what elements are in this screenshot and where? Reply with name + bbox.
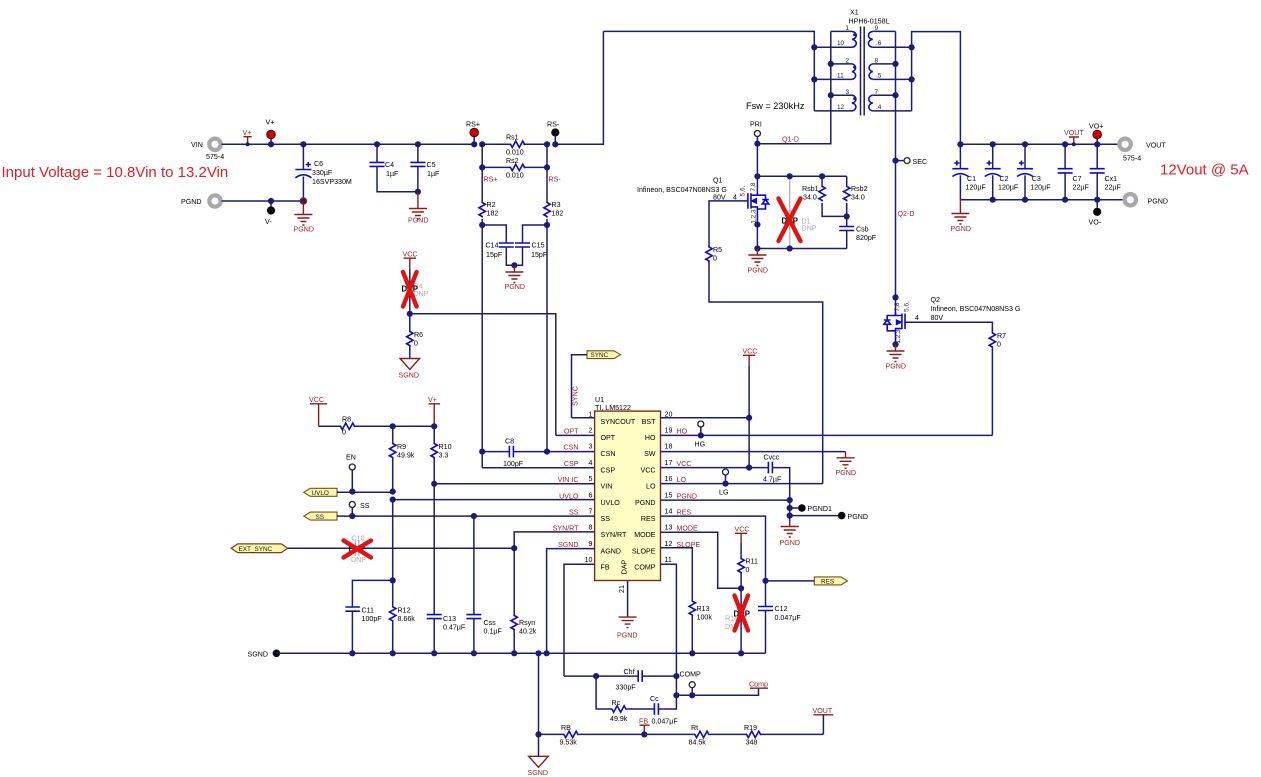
wire SGND rail: [276, 652, 765, 654]
svg-text:4: 4: [915, 314, 919, 322]
resistor R3 182: [544, 167, 564, 225]
wire drain node rail: [757, 175, 846, 177]
svg-text:1µF: 1µF: [427, 170, 440, 178]
pin 2 OPT: [564, 427, 616, 443]
wire EXT_SYNC row: [288, 547, 515, 549]
svg-text:CSN: CSN: [564, 444, 579, 452]
svg-text:7,8: 7,8: [750, 182, 757, 191]
svg-text:VO+: VO+: [1089, 123, 1103, 131]
svg-text:15pF: 15pF: [486, 251, 503, 259]
svg-text:HPH6-0158L: HPH6-0158L: [849, 18, 890, 26]
capacitor C6 330uF 16SVP330M: [295, 141, 352, 201]
svg-text:Rt: Rt: [691, 724, 698, 732]
pin 3 CSN: [564, 443, 616, 459]
svg-text:R12: R12: [398, 607, 411, 615]
test point PGND1: [787, 504, 832, 513]
svg-text:X1: X1: [850, 9, 859, 17]
winding 2-11: [814, 58, 856, 80]
terminal PGND out: [1125, 194, 1168, 206]
svg-text:COMP: COMP: [680, 671, 702, 679]
svg-text:MODE: MODE: [677, 525, 699, 533]
junction R4/R6 node: [407, 311, 413, 317]
svg-text:R6: R6: [414, 331, 423, 339]
ground SGND under R6: [399, 359, 420, 380]
svg-text:R11: R11: [746, 558, 759, 566]
svg-text:C1: C1: [967, 175, 976, 183]
svg-text:HO: HO: [677, 428, 688, 436]
svg-text:TI, LM5122: TI, LM5122: [595, 404, 631, 412]
wire SYNC to pin1: [572, 355, 588, 418]
wire Q1 gate: [709, 201, 748, 246]
svg-text:3: 3: [589, 443, 593, 451]
wire pin16 LO: [661, 483, 823, 485]
wire output rail top: [960, 143, 1119, 145]
svg-text:7: 7: [875, 89, 879, 96]
svg-text:V+: V+: [428, 396, 437, 404]
svg-text:120µF: 120µF: [1030, 184, 1051, 192]
wire RES tag to node: [766, 580, 815, 582]
svg-text:PGND: PGND: [505, 283, 526, 291]
svg-text:0.047µF: 0.047µF: [652, 718, 679, 726]
svg-text:SGND: SGND: [558, 541, 579, 549]
node Comp label: [749, 681, 768, 689]
wire Q1 source: [756, 225, 758, 249]
wire R10 column down: [433, 484, 435, 615]
resistor R7 0: [989, 332, 1006, 435]
svg-text:MODE: MODE: [634, 531, 656, 539]
svg-text:SYN/RT: SYN/RT: [601, 531, 628, 539]
svg-text:Cvcc: Cvcc: [764, 454, 780, 462]
svg-text:FB: FB: [601, 564, 610, 572]
DNP cross C10: [344, 541, 372, 558]
pin 18 SW: [644, 443, 672, 459]
svg-text:C8: C8: [505, 438, 514, 446]
svg-text:VIN: VIN: [601, 483, 613, 491]
svg-text:10: 10: [585, 556, 593, 564]
winding 9-6: [868, 25, 911, 47]
svg-text:VIN IC: VIN IC: [558, 476, 579, 484]
svg-text:5: 5: [589, 475, 593, 483]
svg-text:5,6,: 5,6,: [740, 185, 747, 196]
capacitor Cc 0.047uF: [650, 695, 678, 726]
svg-text:DNP: DNP: [802, 225, 817, 233]
capacitor Css 0.1uF: [466, 516, 502, 653]
capacitor Csb 820pF: [839, 216, 877, 248]
transformer core: [861, 27, 865, 116]
wire rail to riser: [555, 31, 603, 144]
wire VIN pin5: [434, 483, 594, 485]
svg-text:C7: C7: [1073, 175, 1082, 183]
svg-text:12: 12: [837, 104, 845, 111]
svg-text:SGND: SGND: [528, 769, 549, 777]
wire Q1 drain: [756, 144, 758, 193]
svg-text:80V: 80V: [931, 314, 944, 322]
svg-text:FB: FB: [639, 718, 648, 726]
svg-text:9: 9: [589, 540, 593, 548]
wire PGND column: [789, 500, 791, 521]
svg-text:R8: R8: [342, 416, 351, 424]
capacitor Cvcc 4.7uF: [763, 454, 790, 501]
wire OPT to pin2: [556, 434, 595, 436]
svg-text:3.3: 3.3: [439, 452, 449, 460]
test point RS+: [466, 121, 480, 148]
wire pgnd rail: [222, 200, 304, 202]
tag SYNC: [587, 351, 621, 359]
svg-text:PGND: PGND: [635, 499, 656, 507]
DNP cross R14: [735, 596, 749, 631]
svg-text:820pF: 820pF: [856, 234, 877, 242]
node VCC flag (R8): [309, 396, 327, 426]
svg-text:VCC: VCC: [641, 466, 656, 474]
svg-text:Fsw = 230kHz: Fsw = 230kHz: [746, 101, 805, 111]
resistor R2 182: [479, 167, 498, 225]
svg-text:Input Voltage = 10.8Vin to 13.: Input Voltage = 10.8Vin to 13.2Vin: [2, 164, 229, 181]
wire pin1 corner: [572, 417, 595, 419]
terminal PGND 575-4: [181, 195, 221, 206]
svg-text:SGND: SGND: [399, 372, 420, 380]
pin 7 SS: [569, 508, 610, 524]
svg-text:22µF: 22µF: [1073, 184, 1090, 192]
svg-text:PGND: PGND: [780, 539, 801, 547]
svg-text:U1: U1: [595, 396, 604, 404]
svg-text:R13: R13: [697, 605, 710, 613]
node VCC flag (R4 branch): [403, 251, 418, 270]
wire CSN sense riser: [546, 225, 548, 452]
svg-text:2: 2: [589, 427, 593, 435]
svg-text:VCC: VCC: [743, 348, 758, 356]
resistor R4 DNP ghost: [402, 269, 429, 314]
test point SGND rail: [248, 650, 281, 659]
svg-text:1,2,3: 1,2,3: [751, 209, 758, 224]
svg-text:SYNCOUT: SYNCOUT: [601, 418, 636, 426]
svg-text:18: 18: [665, 443, 673, 451]
svg-text:49.9k: 49.9k: [610, 715, 628, 723]
test point COMP: [680, 671, 702, 699]
svg-text:6: 6: [589, 491, 593, 499]
wire SGND drop to FB row: [538, 653, 540, 734]
resistor R13 100k: [689, 600, 712, 653]
svg-text:RS+: RS+: [466, 121, 480, 129]
svg-text:Rsb1: Rsb1: [802, 185, 819, 193]
svg-text:15: 15: [665, 491, 673, 499]
node V+ flag: [243, 129, 252, 146]
svg-text:C6: C6: [314, 160, 323, 168]
pin 14 RES: [641, 508, 691, 524]
svg-text:C12: C12: [775, 605, 788, 613]
pin 5 VIN: [558, 475, 613, 491]
svg-text:EXT_SYNC: EXT_SYNC: [239, 546, 273, 553]
pin 15 PGND: [635, 491, 697, 507]
capacitor C3 120uF: [1017, 141, 1051, 203]
svg-text:BST: BST: [642, 418, 656, 426]
svg-text:SW: SW: [644, 450, 656, 458]
wire output bottom rail: [960, 199, 1124, 201]
svg-text:22µF: 22µF: [1105, 184, 1122, 192]
svg-text:16: 16: [665, 475, 673, 483]
svg-text:SYNC: SYNC: [572, 386, 580, 406]
resistor Rsb1 34.0: [802, 173, 847, 216]
transistor Q2 Infineon BSC047N08NS3 G: [884, 294, 1021, 344]
diode D1 DNP ghost: [782, 176, 817, 248]
resistor Rc 49.9k: [610, 699, 654, 723]
pin 4 CSP: [564, 459, 615, 475]
pin 20 BST: [642, 410, 673, 426]
pin 6 UVLO: [559, 491, 620, 507]
resistor R19 348: [744, 724, 823, 747]
svg-text:CSP: CSP: [601, 466, 616, 474]
svg-text:Csb: Csb: [856, 226, 869, 234]
wire source node rail: [757, 248, 846, 250]
svg-text:RES: RES: [821, 578, 834, 585]
pin 10 FB: [585, 556, 610, 572]
svg-text:5,6,: 5,6,: [904, 301, 911, 312]
capacitor C15 15pF: [511, 222, 550, 269]
resistor R8 0: [319, 416, 435, 437]
pin 16 LO: [646, 475, 686, 491]
svg-text:Q1-D: Q1-D: [782, 136, 799, 144]
wire Q2 gate: [905, 322, 992, 332]
winding 3-12: [814, 89, 856, 111]
svg-text:1: 1: [846, 25, 850, 32]
svg-text:R3: R3: [552, 201, 561, 209]
test point LG: [719, 469, 729, 497]
svg-text:LO: LO: [646, 483, 656, 491]
svg-text:348: 348: [746, 739, 758, 747]
svg-text:34.0: 34.0: [851, 194, 865, 202]
svg-text:330µF: 330µF: [312, 169, 333, 177]
svg-text:C10: C10: [352, 535, 365, 543]
svg-text:PGND: PGND: [181, 198, 202, 206]
pin 1 SYNCOUT: [589, 410, 636, 426]
svg-text:VCC: VCC: [309, 396, 324, 404]
capacitor C1 120uF: [952, 141, 986, 200]
wire pin19 HO: [661, 434, 993, 436]
node VCC flag (BST): [743, 348, 758, 367]
svg-text:9.53k: 9.53k: [560, 739, 578, 747]
svg-text:3: 3: [846, 89, 850, 96]
wire input rail: [222, 143, 475, 145]
svg-text:PGND1: PGND1: [808, 505, 832, 513]
capacitor C13 0.47uF: [427, 615, 466, 654]
pin 19 HO: [645, 427, 688, 443]
svg-text:C5: C5: [427, 161, 436, 169]
svg-text:40.2k: 40.2k: [519, 628, 537, 636]
svg-text:PGND: PGND: [848, 513, 869, 521]
wire UVLO pin6: [393, 499, 595, 501]
svg-text:Rsb2: Rsb2: [851, 185, 868, 193]
svg-text:SYNC: SYNC: [591, 352, 609, 359]
svg-text:4.7µF: 4.7µF: [763, 476, 782, 484]
svg-text:DAP: DAP: [621, 559, 629, 574]
svg-text:100pF: 100pF: [503, 460, 524, 468]
test point HG: [695, 421, 706, 449]
svg-text:C14: C14: [486, 242, 499, 250]
wire Rsyn column: [513, 548, 515, 614]
svg-text:13: 13: [665, 524, 673, 532]
svg-text:7: 7: [589, 508, 593, 516]
svg-text:Css: Css: [484, 619, 497, 627]
tag RES: [814, 577, 847, 585]
svg-text:Rs2: Rs2: [506, 157, 519, 165]
svg-text:10: 10: [837, 40, 845, 47]
svg-text:0.1µF: 0.1µF: [484, 628, 503, 636]
svg-text:PGND: PGND: [617, 632, 638, 640]
node VOUT flag: [1064, 129, 1084, 146]
svg-text:0.010: 0.010: [506, 172, 524, 180]
junction D1 top/bottom: [787, 173, 793, 179]
capacitor C7 22uF: [1058, 141, 1090, 203]
test point VO+: [1089, 123, 1103, 145]
svg-text:UVLO: UVLO: [312, 490, 329, 497]
svg-text:575-4: 575-4: [1123, 155, 1141, 163]
svg-text:12Vout @ 5A: 12Vout @ 5A: [1160, 162, 1249, 179]
wire secondary output bus 6-5-4: [912, 32, 961, 145]
svg-text:4: 4: [589, 459, 593, 467]
resistor Rt 84.5k: [644, 724, 745, 747]
svg-text:VOUT: VOUT: [813, 707, 833, 715]
tag UVLO: [304, 488, 337, 497]
svg-text:330pF: 330pF: [616, 684, 637, 692]
wire pin18 SW: [661, 451, 846, 453]
wire node to OPT riser: [410, 314, 556, 436]
svg-text:11: 11: [665, 556, 672, 564]
capacitor C11 100pF: [345, 577, 395, 653]
svg-text:AGND: AGND: [601, 547, 622, 555]
wire SYN/RT pin8: [514, 532, 594, 548]
ground PGND under pin 21: [617, 617, 638, 639]
svg-text:1µF: 1µF: [386, 170, 399, 178]
ground PGND under C1: [951, 200, 972, 233]
svg-text:19: 19: [665, 427, 673, 435]
svg-text:Comp: Comp: [749, 681, 768, 689]
svg-text:49.9k: 49.9k: [397, 452, 415, 460]
svg-text:SLOPE: SLOPE: [632, 547, 656, 555]
svg-text:C13: C13: [443, 615, 456, 623]
wire VCC riser to BST/VCC pins: [748, 366, 750, 468]
svg-text:C3: C3: [1032, 175, 1041, 183]
svg-text:HG: HG: [695, 441, 706, 449]
svg-text:0.047µF: 0.047µF: [775, 614, 802, 622]
svg-text:DNP: DNP: [414, 290, 429, 298]
svg-text:100pF: 100pF: [362, 615, 383, 623]
svg-text:V+: V+: [266, 119, 275, 127]
svg-text:PGND: PGND: [294, 226, 315, 234]
capacitor C8 100pF: [479, 438, 550, 469]
svg-text:VIN: VIN: [191, 141, 203, 149]
pin 13 MODE: [634, 524, 698, 540]
svg-text:1: 1: [589, 410, 593, 418]
wire pin15 PGND: [661, 499, 790, 501]
svg-text:PGND: PGND: [748, 267, 769, 275]
wire CSN to pin3: [547, 451, 595, 453]
test point EN: [346, 454, 356, 492]
ground PGND under Q1: [748, 249, 769, 275]
svg-text:7,8: 7,8: [894, 302, 901, 311]
svg-text:Q2-D: Q2-D: [898, 210, 915, 218]
svg-text:VCC: VCC: [735, 526, 750, 534]
winding 8-5: [869, 58, 912, 80]
pin 17 VCC: [641, 459, 692, 475]
svg-text:17: 17: [665, 459, 673, 467]
resistor RB 9.53k: [539, 724, 645, 747]
svg-text:8: 8: [589, 524, 593, 532]
svg-text:VOUT: VOUT: [1146, 142, 1166, 150]
svg-text:0: 0: [342, 429, 346, 437]
svg-text:PGND: PGND: [1148, 198, 1169, 206]
svg-text:.4: .4: [876, 104, 882, 111]
svg-text:VCC: VCC: [677, 460, 692, 468]
svg-text:21: 21: [618, 585, 626, 593]
svg-text:VOUT: VOUT: [1064, 129, 1084, 137]
svg-text:8: 8: [875, 58, 879, 65]
resistor R11 0: [738, 543, 758, 591]
wire UVLO row: [337, 491, 393, 493]
svg-text:VO-: VO-: [1089, 219, 1102, 227]
svg-text:RES: RES: [641, 515, 656, 523]
wire pin17 VCC: [661, 467, 769, 469]
transformer X1 HPH6-0158L: [849, 9, 890, 26]
svg-text:Cc: Cc: [650, 695, 659, 703]
svg-text:R7: R7: [997, 332, 1006, 340]
test point SS: [349, 502, 369, 517]
node FB label: [639, 718, 650, 735]
svg-text:PGND: PGND: [951, 225, 972, 233]
ground PGND column symbol: [780, 521, 801, 547]
svg-text:C2: C2: [1000, 175, 1009, 183]
svg-text:EN: EN: [346, 454, 356, 462]
wire Q2 source: [892, 341, 898, 347]
resistor Rs2 0.010: [479, 144, 550, 179]
wire pin13 MODE: [661, 532, 742, 588]
svg-text:OPT: OPT: [564, 428, 579, 436]
svg-text:9: 9: [875, 25, 879, 32]
capacitor C10 DNP ghost: [349, 535, 367, 565]
test point V-: [265, 198, 275, 226]
svg-text:SS: SS: [316, 514, 325, 521]
svg-text:R10: R10: [439, 443, 452, 451]
DNP cross R4: [403, 272, 417, 307]
wire pin20 BST: [661, 417, 750, 419]
svg-text:34.0: 34.0: [803, 194, 817, 202]
wire pin12 SLOPE: [661, 548, 693, 600]
capacitor C2 120uF: [985, 141, 1019, 203]
test point PGND: [787, 512, 868, 521]
svg-text:8.66k: 8.66k: [398, 615, 416, 623]
svg-text:DNP: DNP: [351, 556, 366, 564]
svg-text:RES: RES: [677, 509, 692, 517]
winding 7-4: [869, 89, 912, 111]
pin 9 AGND: [558, 540, 621, 556]
svg-text:0.47µF: 0.47µF: [443, 624, 466, 632]
resistor R6 0: [407, 314, 424, 359]
capacitor Chf 330pF: [596, 668, 676, 692]
svg-text:CSN: CSN: [601, 450, 616, 458]
svg-text:11: 11: [837, 73, 844, 80]
svg-text:R5: R5: [713, 246, 722, 254]
svg-text:C15: C15: [532, 242, 545, 250]
svg-text:SGND: SGND: [248, 651, 269, 659]
DNP cross D1: [779, 199, 801, 242]
svg-text:.5: .5: [876, 73, 882, 80]
svg-text:Chf: Chf: [624, 668, 635, 676]
wire pin11 COMP: [661, 564, 677, 695]
resistor R9 49.9k: [390, 423, 415, 491]
svg-text:V-: V-: [265, 218, 272, 226]
wire AGND pin9: [547, 549, 595, 654]
wire CSP corner to pin4: [482, 467, 594, 469]
wire SS pin7: [337, 515, 595, 517]
svg-text:LG: LG: [719, 489, 728, 497]
